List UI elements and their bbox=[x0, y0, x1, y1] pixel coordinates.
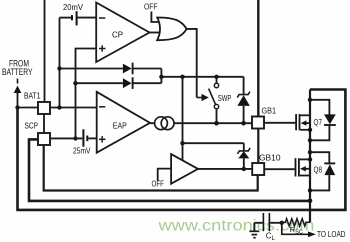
resistor RSC bbox=[282, 219, 310, 226]
wire GB10 to Q8 gate bbox=[264, 168, 294, 170]
wire SCP to 25mV offset bbox=[50, 137, 82, 139]
svg-text:SCP: SCP bbox=[25, 121, 39, 131]
svg-text:Q8: Q8 bbox=[314, 165, 323, 174]
diode body Q7 bbox=[310, 100, 329, 115]
node junction buffer branch bbox=[180, 75, 184, 79]
resistor BAT1 (sense box) bbox=[38, 102, 50, 114]
node junction SWP top bbox=[214, 75, 218, 79]
ground bbox=[249, 231, 259, 237]
wire diode output to zener Z1 bbox=[161, 76, 243, 78]
op-amp CP bbox=[96, 3, 149, 63]
svg-text:TO LOAD: TO LOAD bbox=[317, 230, 346, 239]
wire diode line 2 bbox=[76, 82, 123, 84]
zener Z2 bbox=[243, 143, 245, 151]
wire BAT1 to SCP link bbox=[43, 114, 45, 133]
gate OR (shutdown) bbox=[144, 1, 158, 11]
node junction SWP bottom bbox=[214, 121, 219, 126]
wire buffer output to GB10 bbox=[198, 168, 252, 170]
wire vertical x182.5 to buffer bbox=[182, 77, 184, 161]
capacitor CL bbox=[254, 222, 262, 224]
transistor Q7 bbox=[295, 114, 300, 130]
node junction diode line 2 tap bbox=[73, 81, 77, 85]
driver GB1 bbox=[252, 117, 264, 129]
wire GB1 to GB10 bbox=[257, 129, 259, 164]
node junction BAT1 line tap bbox=[57, 105, 61, 109]
svg-text:BATTERY: BATTERY bbox=[2, 67, 33, 77]
wire BAT1 input bbox=[18, 107, 39, 109]
node load junction bbox=[280, 221, 284, 225]
op-amp EAP bbox=[97, 92, 150, 153]
node junction Q7 source stub bbox=[308, 128, 312, 132]
wire CP non-inverting input bbox=[76, 49, 97, 139]
svg-text:EAP: EAP bbox=[113, 120, 127, 130]
wire tall vertical to GB1 bbox=[257, 0, 259, 117]
wire BAT1 to EAP inverting input bbox=[50, 107, 97, 109]
node junction SCP sense rail bbox=[308, 199, 313, 204]
transistor Q8 bbox=[295, 158, 300, 176]
wire diode join vertical bbox=[160, 69, 162, 84]
resistor SCP (sense box) bbox=[38, 133, 50, 145]
node junction 25mV line tap bbox=[73, 136, 77, 140]
capacitor 25mV offset source bbox=[82, 129, 88, 146]
svg-text:L: L bbox=[272, 236, 276, 242]
battery input arrow bbox=[14, 79, 22, 108]
node junction Q7 diode return bbox=[308, 138, 312, 142]
svg-text:Q7: Q7 bbox=[314, 118, 323, 127]
node junction Q8 diode top bbox=[308, 150, 312, 154]
node junction Q8 drain stub bbox=[308, 157, 312, 161]
svg-text:BAT1: BAT1 bbox=[24, 91, 41, 101]
wire 25mV to EAP non-inverting input bbox=[88, 137, 96, 139]
wire SCP bottom pin to GB10 bottom bbox=[44, 145, 258, 191]
wire CP output to OR input bbox=[150, 32, 161, 34]
wire EAP output to GB1 bbox=[174, 122, 252, 124]
diode D1 bbox=[123, 64, 132, 74]
wire SCP left pin down to bottom rail bbox=[29, 139, 310, 201]
wire OR output down to SWP arrow bbox=[187, 29, 197, 98]
node junction Q7 diode top bbox=[308, 98, 312, 102]
wire vertical x59.5 from 20mV down to BAT1 line bbox=[59, 18, 61, 108]
wire diode line 1 bbox=[60, 68, 123, 70]
wire top-left vertical to BAT1 bbox=[44, 0, 46, 103]
capacitor 20mV offset source bbox=[71, 11, 78, 25]
svg-text:GB10: GB10 bbox=[259, 153, 281, 163]
node junction diode output bbox=[159, 75, 163, 79]
svg-text:SWP: SWP bbox=[218, 93, 232, 103]
svg-text:CP: CP bbox=[112, 29, 123, 39]
wire Q7 drain/source vertical bbox=[309, 90, 311, 223]
node junction battery input bbox=[15, 105, 19, 109]
svg-text:GB1: GB1 bbox=[262, 106, 277, 116]
svg-text:20mV: 20mV bbox=[63, 2, 83, 12]
node junction diode line 1 tap bbox=[57, 66, 61, 70]
diode body Q8 bbox=[310, 152, 329, 162]
wire TO LOAD arrow bbox=[282, 223, 309, 235]
current source circles at EAP output bbox=[150, 122, 155, 124]
wire OFF to buffer input bbox=[158, 169, 171, 181]
wire 20mV offset line to CP inverting input bbox=[60, 17, 72, 19]
zener Z1 bbox=[243, 77, 245, 95]
node junction Q8 diode return bbox=[308, 188, 312, 192]
wire y143 to zener Z2 bbox=[183, 142, 244, 144]
wire left rail, bottom rail, right rail, top rail bbox=[18, 90, 346, 210]
wire OFF to OR input bbox=[151, 12, 159, 23]
wire GB1 to Q7 gate bbox=[264, 122, 295, 124]
label 25mV bbox=[73, 145, 91, 155]
node FROM BATTERY label bbox=[2, 58, 33, 77]
buffer amplifier bbox=[152, 179, 165, 189]
node junction zener Z2 branch bbox=[180, 141, 184, 145]
node junction zener Z1 anode bbox=[241, 121, 246, 126]
svg-text:OFF: OFF bbox=[144, 1, 158, 11]
switch SWP bbox=[216, 77, 218, 83]
driver GB10 bbox=[252, 163, 264, 175]
diode D2 bbox=[123, 78, 132, 88]
svg-text:25mV: 25mV bbox=[73, 145, 91, 155]
